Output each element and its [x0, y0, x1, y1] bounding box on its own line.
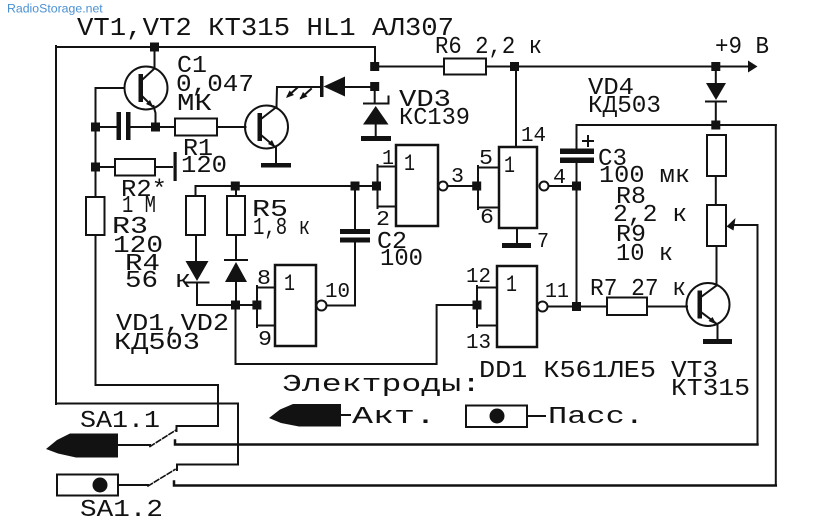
wire R1 to VT2 base — [217, 126, 246, 128]
transistor VT3 base bar — [698, 291, 703, 319]
transistor VT3 circle — [687, 283, 730, 326]
electrode SA1.1 active — [46, 434, 118, 458]
LED HL1 arrow 2 — [286, 88, 297, 98]
node junction pin4 — [572, 182, 581, 191]
switch SA1.2 lever — [148, 470, 175, 487]
wire DD1.3 out to C2 — [327, 243, 356, 306]
svg-text:100: 100 — [380, 246, 423, 273]
svg-text:КД503: КД503 — [588, 93, 661, 120]
+9V arrow head — [748, 61, 758, 73]
wire SA1.2 throw to box right edge (long) — [174, 482, 776, 486]
wire R4 to VD1 — [195, 235, 197, 261]
svg-text:Электроды:: Электроды: — [282, 372, 481, 399]
diode VD1 cathode bar — [187, 282, 209, 284]
diode VD4 triangle — [706, 83, 726, 100]
svg-text:Акт.: Акт. — [352, 404, 436, 431]
svg-text:КД503: КД503 — [114, 330, 200, 357]
svg-text:МК: МК — [177, 91, 212, 118]
wire R9 to VT3 collector — [716, 246, 718, 285]
wire R3 rail down — [95, 235, 97, 385]
svg-text:1: 1 — [404, 151, 415, 177]
node junction R6 left — [370, 62, 379, 71]
svg-text:7: 7 — [537, 231, 549, 254]
wire rail to SA1.1 upper contact — [96, 385, 219, 431]
node junction DD1.3 inputs — [252, 301, 261, 310]
svg-text:8: 8 — [257, 268, 271, 291]
transistor VT3 collector lead — [701, 286, 717, 298]
electrode SA1.2 dot — [93, 478, 108, 493]
capacitor C2 plate top — [340, 229, 370, 234]
ground VD3 — [361, 136, 391, 141]
wire node to R1 — [156, 126, 176, 128]
transistor VT2 emitter lead — [261, 135, 274, 146]
resistor R9 trimmer — [707, 205, 726, 246]
diode VD1 triangle — [186, 261, 209, 281]
node junction DD1.2 inputs — [472, 182, 481, 191]
wire VT1 base to rail — [96, 88, 125, 197]
gate DD1.1 box — [396, 145, 438, 226]
transistor VT3 emitter lead — [701, 312, 716, 323]
transistor VT1 emitter lead — [142, 96, 152, 106]
capacitor C1 plate right — [126, 112, 131, 140]
wire C2 top to rail — [354, 186, 356, 229]
wire R4R5 top rail — [196, 185, 378, 187]
wire C1 to emitter node — [131, 126, 156, 128]
wire VD1 to bottom net — [197, 284, 257, 305]
LED HL1 triangle — [324, 77, 346, 97]
transistor VT1 collector lead — [142, 69, 155, 81]
wire pin4 node down to pin11 node — [576, 186, 578, 307]
gate DD1.3 box — [275, 265, 316, 346]
svg-text:6: 6 — [480, 207, 494, 230]
wire DD1.2 pin7 ground stub — [516, 228, 518, 243]
legend passive dot — [490, 409, 505, 424]
svg-text:SA1.2: SA1.2 — [80, 497, 163, 524]
wire top rail +9V — [56, 47, 748, 67]
electrode bar at R2 — [174, 152, 177, 181]
LED HL1 cathode bar — [320, 76, 324, 97]
capacitor C2 plate bottom — [340, 238, 370, 243]
electrode SA1.2 passive body — [57, 475, 118, 496]
svg-text:КС139: КС139 — [399, 105, 470, 132]
diode VD2 triangle — [225, 262, 247, 282]
resistor R4 — [186, 196, 205, 235]
wire R4 top stub — [195, 186, 197, 196]
legend passive electrode body — [466, 406, 527, 428]
wire VD3 to ground — [375, 125, 377, 137]
transistor VT1 circle — [125, 67, 168, 110]
wire LED to node — [345, 86, 375, 88]
svg-text:13: 13 — [466, 332, 491, 355]
resistor R3 — [86, 197, 105, 235]
wire detour to DD1.4 inputs — [236, 305, 478, 364]
svg-text:11: 11 — [545, 281, 569, 304]
gate DD1.3 input bracket — [257, 286, 275, 327]
node junction DD1.1 inputs — [372, 182, 381, 191]
svg-text:120: 120 — [181, 153, 227, 180]
capacitor C3 plus sign — [583, 136, 593, 146]
svg-text:14: 14 — [521, 125, 546, 148]
wire R9 wiper — [733, 225, 758, 445]
wire feedback box top — [577, 125, 776, 149]
wire SA1.2 electrode — [118, 484, 148, 486]
capacitor C3 plate top — [560, 149, 594, 155]
R9 wiper arrow — [727, 218, 736, 231]
gate DD1.3 output bubble — [317, 301, 327, 311]
wire R5 top stub — [235, 186, 237, 196]
gate DD1.4 output bubble — [538, 302, 548, 312]
transistor VT3 emitter arrow — [709, 317, 717, 325]
resistor R8 — [707, 135, 726, 176]
capacitor C1 plate left — [117, 112, 122, 140]
legend active dash — [341, 414, 350, 416]
node junction rail/C1 — [91, 123, 100, 132]
node junction VD4/box top — [711, 121, 720, 130]
gate DD1.2 output bubble — [540, 182, 549, 191]
resistor R7 — [607, 298, 647, 316]
node junction emitter/R1 — [151, 123, 160, 132]
wire DD1.1 out to DD1.2 in — [448, 185, 479, 187]
transistor VT1 emitter arrow — [146, 100, 154, 108]
wire VT2 emitter to ground — [275, 147, 277, 163]
svg-text:1: 1 — [506, 272, 517, 298]
svg-text:56 к: 56 к — [125, 268, 191, 295]
LED HL1 arrow 1 — [300, 89, 312, 100]
ground VT3 — [703, 339, 732, 344]
svg-text:1,8 к: 1,8 к — [253, 215, 310, 242]
transistor VT2 emitter arrow — [268, 140, 276, 148]
resistor R2 — [115, 159, 155, 176]
resistor R1 — [175, 119, 217, 136]
capacitor C3 plate bottom — [560, 158, 594, 164]
transistor VT2 base bar — [258, 113, 263, 141]
wire R2 to bar — [155, 166, 172, 168]
svg-text:10: 10 — [325, 281, 350, 304]
gate DD1.4 input bracket — [477, 286, 497, 327]
resistor R6 — [444, 59, 486, 75]
svg-text:R6 2,2 к: R6 2,2 к — [435, 34, 542, 61]
svg-text:3: 3 — [451, 166, 464, 189]
wire R5 to VD2 — [235, 235, 237, 259]
node junction C2 top — [351, 182, 360, 191]
zener VD3 triangle — [363, 106, 389, 125]
transistor VT1 base bar — [139, 74, 144, 102]
wire SA1.1 electrode — [118, 444, 150, 446]
wire node to VD3 — [374, 87, 376, 102]
wire SA1.1 throw to R9 wiper (long) — [175, 441, 758, 445]
svg-text:R7 27 к: R7 27 к — [590, 276, 686, 303]
node junction +9V / VD4 — [711, 62, 720, 71]
ground DD1.2 pin7 — [502, 243, 531, 248]
zener VD3 cathode bar — [364, 97, 389, 104]
wire C3 down to pin4 node — [576, 163, 578, 186]
node junction pin14 tap — [510, 62, 519, 71]
node junction DD1.4 inputs — [473, 301, 482, 310]
gate DD1.1 input bracket — [378, 165, 397, 208]
wire VT1 emitter down — [154, 106, 156, 127]
wire box right edge — [775, 125, 777, 486]
gate DD1.4 box — [497, 266, 537, 347]
wire pin14 — [515, 67, 517, 148]
wire VT1 collector — [154, 47, 156, 68]
node junction top collector VT1 — [150, 43, 159, 52]
svg-text:+9 В: +9 В — [715, 34, 769, 61]
svg-text:DD1 К561ЛЕ5: DD1 К561ЛЕ5 — [479, 358, 656, 385]
wire left border to SA1.2 upper contact — [56, 404, 238, 471]
svg-text:1: 1 — [284, 271, 295, 297]
svg-text:SA1.1: SA1.1 — [80, 408, 160, 435]
diode VD2 cathode bar — [225, 259, 247, 261]
wire VD2 down — [235, 282, 237, 305]
ground VT2 — [261, 163, 291, 168]
wire DD1.4 out to R7 — [548, 306, 608, 308]
node junction pin11 — [572, 302, 581, 311]
wire VT2 collector to LED — [277, 87, 321, 107]
wire rail to C1 — [96, 126, 118, 128]
svg-text:VT1,VT2 КТ315 HL1 АЛ307: VT1,VT2 КТ315 HL1 АЛ307 — [77, 13, 454, 43]
resistor R5 — [227, 196, 245, 235]
node junction rail/R2 — [91, 163, 100, 172]
node junction R5 top — [231, 182, 240, 191]
wire left border rail — [55, 46, 57, 404]
svg-text:12: 12 — [466, 266, 491, 289]
legend passive dash — [527, 415, 545, 417]
wire DD1.2 out to node — [549, 185, 577, 187]
gate DD1.2 box — [499, 147, 537, 228]
node junction VD2/down wire — [231, 301, 240, 310]
svg-text:5: 5 — [479, 148, 493, 171]
node junction LED/VD3 — [370, 82, 379, 91]
transistor VT2 collector lead — [261, 107, 277, 119]
svg-text:4: 4 — [553, 167, 566, 190]
svg-text:1: 1 — [382, 148, 394, 171]
diode VD4 wires and bar — [706, 67, 726, 126]
legend active electrode — [269, 404, 341, 427]
wire rail to R2 — [96, 166, 116, 168]
svg-text:Пасс.: Пасс. — [548, 404, 644, 431]
wire R8 to R9 — [715, 176, 717, 205]
svg-text:1: 1 — [504, 153, 515, 179]
transistor VT2 circle — [245, 106, 288, 149]
svg-text:2: 2 — [376, 209, 390, 232]
svg-text:КТ315: КТ315 — [671, 376, 750, 403]
switch SA1.1 lever — [150, 430, 176, 447]
gate DD1.1 output bubble — [439, 182, 448, 191]
svg-text:10 к: 10 к — [616, 241, 673, 268]
wire R7 to VT3 base — [647, 306, 687, 308]
gate DD1.2 input bracket — [478, 166, 499, 209]
svg-text:9: 9 — [258, 329, 272, 352]
wire VT3 emitter to ground — [717, 324, 719, 339]
